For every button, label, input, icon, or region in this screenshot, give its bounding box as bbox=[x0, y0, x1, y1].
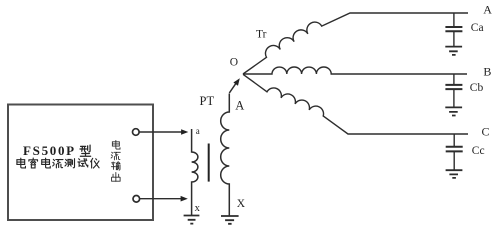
svg-text:FS500P: FS500P bbox=[23, 143, 76, 158]
svg-text:Cb: Cb bbox=[470, 82, 484, 94]
svg-text:A: A bbox=[235, 99, 244, 113]
svg-text:O: O bbox=[230, 57, 238, 69]
svg-text:Ca: Ca bbox=[471, 22, 484, 34]
svg-text:A: A bbox=[483, 3, 492, 17]
svg-text:PT: PT bbox=[200, 94, 215, 108]
svg-text:Tr: Tr bbox=[256, 29, 267, 41]
svg-text:X: X bbox=[237, 198, 246, 210]
svg-text:Cc: Cc bbox=[472, 145, 485, 157]
svg-text:B: B bbox=[483, 65, 491, 79]
svg-text:a: a bbox=[196, 126, 200, 136]
svg-text:C: C bbox=[482, 125, 490, 139]
svg-text:x: x bbox=[195, 203, 201, 214]
